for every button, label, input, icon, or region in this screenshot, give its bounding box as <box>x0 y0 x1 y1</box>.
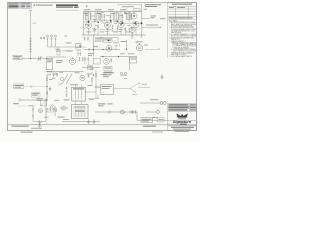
jack spring circle J1 <box>38 109 42 113</box>
sheet border frame <box>8 3 197 131</box>
lower return wire <box>22 99 47 101</box>
bias resistor R6 <box>94 28 95 32</box>
IF can T5 <box>95 13 101 20</box>
mic box sub-label <box>47 70 53 73</box>
stamp table 2 (top left) <box>21 3 32 9</box>
chain label <box>29 104 33 107</box>
aux small text <box>124 77 128 80</box>
relay wiring <box>114 83 151 95</box>
IF can T7 <box>127 14 132 20</box>
osc coil T1 <box>129 12 131 19</box>
det text marks <box>47 69 94 79</box>
meter junction blob <box>108 39 110 41</box>
wire from T2 right <box>85 70 96 98</box>
keying resistor R21 <box>32 108 33 112</box>
keying resistor R22 <box>32 114 33 118</box>
junction dots feeder <box>46 91 47 100</box>
B+ top bus <box>84 11 143 13</box>
plus mark <box>85 5 87 7</box>
drawing number under border <box>175 131 189 132</box>
dial line <box>118 5 142 7</box>
interstage drops <box>85 12 134 23</box>
bleeder resistor R19 <box>88 57 89 61</box>
agc return wire <box>88 95 100 99</box>
bottom strip rule <box>8 124 197 126</box>
dashed interconnect wire <box>24 86 47 88</box>
divider resistor R14 <box>53 73 54 77</box>
note below border right <box>152 132 163 133</box>
revision table (top right) <box>168 3 197 20</box>
stamp table 1 (top left) <box>8 3 19 9</box>
mic transformer box <box>46 58 53 69</box>
mixer text <box>121 52 135 55</box>
antenna input wire <box>22 58 48 60</box>
strip second text <box>31 128 42 129</box>
if transformer T2 <box>72 87 85 101</box>
screen resistor R2 <box>104 14 105 18</box>
junction dot <box>46 86 47 87</box>
line label above <box>150 98 158 101</box>
left riser wire <box>83 12 85 36</box>
gain pot ticks <box>57 51 60 56</box>
centre wire y49 <box>84 49 120 51</box>
pin label <box>65 35 68 38</box>
bottom return bus <box>62 121 100 123</box>
grid cap C6 <box>88 49 91 51</box>
screen feed resistor R25 <box>91 78 92 82</box>
agc caption <box>104 71 112 74</box>
svg-text:2000 TO 8000 KILOCYCLES FOR: 2000 TO 8000 KILOCYCLES FOR <box>173 51 198 53</box>
IF can T6 <box>114 13 120 20</box>
speech amp caption <box>145 4 161 7</box>
osc section box <box>134 9 141 11</box>
dropping resistor R3 <box>110 14 111 18</box>
tube V5 <box>131 13 137 19</box>
sidetone stub <box>142 18 150 20</box>
power drop <box>137 112 168 120</box>
cathode resistor R9 <box>125 28 126 32</box>
svg-text:SEE NOTE 2: SEE NOTE 2 <box>171 39 180 41</box>
af text labels <box>56 51 94 56</box>
bottom strip left text <box>12 126 29 127</box>
bleeder wires <box>85 57 88 66</box>
variable capacitor C2 <box>38 56 42 61</box>
mod junction dot <box>126 49 127 50</box>
plate supply vertical <box>141 5 143 39</box>
trimmer cap C13 <box>51 35 53 42</box>
component value labels row <box>86 29 131 33</box>
aux connector <box>157 111 160 114</box>
bias resistor R12 <box>79 57 80 61</box>
T2 feed wires <box>76 84 82 87</box>
coupling cap C4 <box>109 21 112 23</box>
relay box <box>101 85 114 95</box>
agc box <box>104 66 112 71</box>
title block upper text rows <box>168 104 195 110</box>
grid resistor R4 <box>122 14 123 18</box>
tube V3 <box>118 22 124 28</box>
meter feed wire <box>100 38 118 45</box>
meter shunt label <box>104 39 111 40</box>
pilot lamps <box>120 72 127 76</box>
key arrow through strip <box>38 120 42 128</box>
sheet area tint <box>8 3 197 131</box>
filament ballast lamp <box>108 111 111 114</box>
relay contact box <box>96 37 103 41</box>
svg-text:Signature: Signature <box>173 119 192 124</box>
side label <box>64 85 101 100</box>
power transformer T3 <box>72 105 89 119</box>
osc caption <box>56 49 72 51</box>
junction dot <box>30 58 31 59</box>
key cap ticks <box>46 109 49 112</box>
tube V4 <box>133 21 139 27</box>
terminal dots pair <box>52 105 54 110</box>
maker wings emblem <box>176 113 188 117</box>
top note line <box>39 5 53 6</box>
receiver arrowhead <box>30 86 32 88</box>
loading coil L1 <box>30 39 32 52</box>
power lead bus <box>95 111 137 113</box>
contact marks <box>96 40 101 42</box>
terminal label box TO ANT <box>13 55 22 59</box>
det caption rows <box>87 74 107 75</box>
caption under jack <box>58 117 69 120</box>
antenna lead wire <box>29 11 32 58</box>
ant post connector <box>160 102 166 105</box>
series resistor R17 <box>46 77 47 81</box>
aux stub wire <box>146 111 156 113</box>
cathode choke <box>131 33 133 38</box>
ant post wire <box>140 102 160 104</box>
antenna relay wire <box>145 49 159 51</box>
meter shunt box <box>104 38 113 42</box>
jack label <box>44 116 49 119</box>
bias resistor R13 <box>82 57 83 61</box>
aux connector box <box>158 118 165 122</box>
junction dots top band <box>88 20 143 24</box>
revision table header text <box>172 4 192 5</box>
screen dropping resistor R10 <box>84 37 85 41</box>
relay mark <box>158 48 160 50</box>
tube V2 <box>104 22 110 28</box>
mixer tick label <box>113 41 117 44</box>
smoothing cap C10 <box>93 119 95 124</box>
xtal label text <box>151 16 166 20</box>
grommet <box>55 73 57 75</box>
title block frame <box>168 104 197 131</box>
decoupling resistor R11 <box>87 37 88 41</box>
svg-text:WITH 1000 OHM PER VOLT METER: WITH 1000 OHM PER VOLT METER <box>171 36 198 38</box>
scattered value smudges <box>85 12 134 32</box>
label above terminal box <box>152 116 158 119</box>
heater wire segments <box>84 21 142 30</box>
arrow connector <box>19 99 22 102</box>
rf output wire <box>48 42 87 47</box>
plate resistor R1 <box>101 14 102 18</box>
ground right <box>161 75 164 80</box>
filter cap C7 <box>92 74 95 76</box>
left stub of af bus <box>46 56 66 58</box>
title block lower text <box>171 127 194 128</box>
caption above T2 <box>70 83 78 86</box>
coupling cap C5 <box>116 28 119 30</box>
stage labels above bus <box>84 9 128 14</box>
det tube V11 <box>80 75 85 80</box>
keying label <box>146 24 158 27</box>
top dark text bar <box>56 4 79 7</box>
divider resistor R23 <box>50 107 51 111</box>
long vertical feed <box>93 35 95 57</box>
mod transformer vertical <box>126 40 128 50</box>
jack vertical wire <box>45 98 47 122</box>
to jack caption <box>13 103 19 104</box>
revision entry text <box>169 17 193 18</box>
notes text lines <box>169 21 202 58</box>
vertical feed right <box>129 57 131 71</box>
driver tube V9 <box>104 59 110 65</box>
wire y67.5 <box>82 67 100 69</box>
cathode resistor R8 <box>112 25 113 29</box>
junction dot <box>102 49 103 50</box>
phone jack cluster label <box>37 98 44 101</box>
fuse lamp <box>121 110 125 114</box>
notes block heading <box>168 19 178 58</box>
hash filter choke <box>66 87 68 98</box>
label beside box <box>56 60 63 63</box>
relay contact label <box>142 83 147 86</box>
plug caption upper <box>54 99 60 102</box>
driver stage box <box>93 58 100 64</box>
tube V8 <box>70 57 76 65</box>
T3 top leads <box>76 101 82 104</box>
headphone plug P1 <box>60 106 69 110</box>
vertical feeder <box>46 75 48 100</box>
xtal holder box <box>76 43 81 47</box>
trimmer cap C14 <box>55 35 57 42</box>
bias cell box <box>88 65 93 69</box>
agc return label <box>89 98 94 101</box>
interlock text box <box>32 92 41 97</box>
relay contact label <box>96 38 101 39</box>
keying chain wire <box>33 105 46 122</box>
screen feed resistor R24 <box>95 73 96 77</box>
jack body box <box>41 100 47 106</box>
bleeder resistor R18 <box>84 57 85 61</box>
mid bus <box>82 34 146 36</box>
feed wire <box>91 72 93 87</box>
cathode resistor R7 <box>97 25 98 29</box>
audio bus lower <box>46 71 84 73</box>
dashed phone line <box>18 105 36 107</box>
note under bottom border <box>21 132 33 133</box>
resistor value label <box>49 78 53 81</box>
smoothing cap C9 <box>87 119 89 124</box>
tube V7 <box>106 45 112 51</box>
faint second text row <box>56 9 79 12</box>
title block mid rule <box>168 124 197 126</box>
xtal label <box>66 42 72 45</box>
trimmer cap C12 <box>47 35 49 42</box>
maker name text <box>178 118 186 119</box>
battery caption <box>98 103 113 106</box>
bus junction dots <box>93 49 119 57</box>
dynamotor caption <box>103 72 114 77</box>
tube V6 lower <box>129 27 135 33</box>
output box label <box>131 58 136 61</box>
value label <box>93 45 98 48</box>
terminal box <box>141 118 153 123</box>
wafer caption <box>75 71 80 74</box>
label above <box>121 40 127 43</box>
padder cap C11 <box>49 87 51 92</box>
svg-text:UNLESS OTHERWISE NOTED: UNLESS OTHERWISE NOTED <box>171 25 194 27</box>
load resistor R20 <box>111 58 112 62</box>
trimmer row text <box>144 8 148 11</box>
tube V1 <box>86 22 92 28</box>
pa tube V10 <box>136 43 142 51</box>
avc diode circle <box>60 77 63 80</box>
drop wires <box>58 47 76 52</box>
grid leak drops <box>89 18 137 35</box>
trimmer caps C1 <box>40 37 45 39</box>
agc box label <box>105 68 111 69</box>
tone cap cluster <box>77 52 82 57</box>
small cluster left of V7 <box>114 44 120 50</box>
aux connector box label <box>158 118 163 121</box>
cluster label <box>77 49 82 52</box>
dial label <box>122 5 134 8</box>
bypass cap C8 <box>46 93 49 95</box>
sidetone jack circle <box>53 106 57 116</box>
coupling cap C3 <box>93 21 96 23</box>
pa label <box>136 41 149 45</box>
keying line <box>142 27 161 28</box>
bottom strip mid text <box>143 126 156 127</box>
paper background <box>0 0 200 141</box>
lower wire y112 left <box>46 111 53 113</box>
dropping resistor R16 <box>88 74 89 78</box>
IF can T4 <box>86 13 92 20</box>
power connector <box>131 110 135 113</box>
af bus <box>100 56 137 58</box>
output coupling box <box>130 57 137 63</box>
switch wafer S1 <box>58 74 72 84</box>
label box TO RECEIVER <box>14 84 24 89</box>
divider resistor R15 <box>56 73 57 77</box>
